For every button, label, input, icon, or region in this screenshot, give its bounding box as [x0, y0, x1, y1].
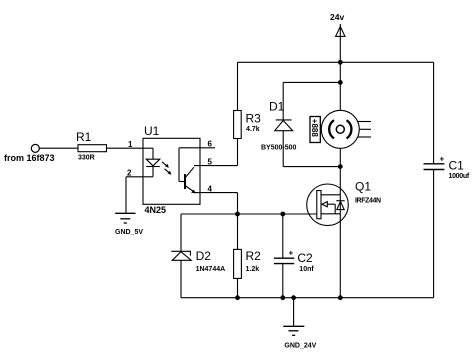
junction D1 rail: [338, 80, 343, 85]
diode D1: [261, 82, 297, 151]
junction bottom rail C2: [280, 295, 285, 300]
junction gate rail pin4: [235, 212, 240, 217]
resistor R3: [234, 111, 262, 139]
wire U1 pin 5 to R3 bottom: [194, 139, 238, 167]
wire R1 to U1 pin 1: [107, 140, 144, 149]
wire top rail to R3: [237, 62, 239, 110]
U1 LED: [143, 148, 160, 177]
U1 light arrows: [162, 162, 171, 175]
capacitor C1: [424, 62, 470, 297]
capacitor C2: [274, 214, 314, 298]
svg-text:1000uf: 1000uf: [449, 173, 470, 180]
svg-text:C1: C1: [449, 158, 465, 172]
wire motor to Q1 drain and source to bottom rail: [339, 148, 341, 297]
junction drain node: [338, 164, 343, 169]
svg-text:5: 5: [208, 157, 213, 166]
svg-text:4.7k: 4.7k: [246, 126, 260, 133]
wire U1 pin 2 to ground: [126, 169, 143, 214]
resistor R1: [76, 130, 107, 162]
junction bottom rail R2: [235, 295, 240, 300]
svg-text:+: +: [289, 249, 294, 258]
svg-text:6: 6: [208, 140, 213, 149]
svg-text:from 16f873: from 16f873: [4, 153, 55, 163]
U1 phototransistor: [179, 148, 196, 194]
svg-text:IRFZ44N: IRFZ44N: [355, 197, 381, 204]
wire gate rail: [181, 213, 317, 215]
svg-text:10nf: 10nf: [299, 266, 314, 273]
wire input to R1: [39, 147, 78, 149]
transistor Q1 mosfet: [307, 180, 381, 226]
svg-text:+: +: [440, 154, 445, 163]
svg-text:4: 4: [208, 184, 213, 193]
svg-text:330R: 330R: [78, 154, 95, 161]
ground GND_24V: [283, 298, 316, 350]
junction bottom rail ground: [291, 295, 296, 300]
svg-text:1.2k: 1.2k: [246, 266, 260, 273]
svg-text:Q1: Q1: [355, 180, 371, 194]
svg-text:1: 1: [128, 140, 133, 149]
junction bottom rail Q1 source: [338, 295, 343, 300]
svg-text:R3: R3: [246, 112, 262, 126]
wire D1 branch rail: [283, 81, 340, 83]
wire bottom rail: [181, 297, 434, 299]
svg-text:24v: 24v: [330, 12, 344, 22]
wire top 24v rail: [238, 61, 434, 63]
wire 24v rail to motor: [339, 62, 341, 110]
op-amp U1 optocoupler box: [143, 124, 200, 215]
resistor R2: [234, 214, 262, 298]
svg-text:BY500-500: BY500-500: [261, 145, 297, 152]
svg-text:+888: +888: [310, 119, 319, 138]
svg-text:R2: R2: [246, 249, 262, 263]
power 24v arrow: [330, 12, 345, 62]
input terminal from 16f873: [4, 144, 55, 163]
svg-text:C2: C2: [297, 251, 313, 265]
ground GND_5V: [115, 213, 143, 236]
svg-text:2: 2: [127, 169, 132, 178]
svg-text:4N25: 4N25: [145, 205, 167, 215]
motor M1: [310, 110, 371, 148]
U1 pin 6 stub: [179, 140, 215, 149]
zener diode D2: [171, 214, 225, 298]
junction top rail: [338, 60, 343, 65]
svg-text:D2: D2: [196, 249, 212, 263]
wire U1 pin 4 to gate rail: [195, 184, 238, 214]
svg-text:GND_5V: GND_5V: [115, 229, 143, 236]
junction gate rail C2: [280, 212, 285, 217]
wire D1 anode to drain node: [283, 131, 340, 167]
svg-text:GND_24V: GND_24V: [284, 342, 316, 349]
svg-text:R1: R1: [76, 130, 92, 144]
svg-text:D1: D1: [269, 100, 285, 114]
svg-text:U1: U1: [144, 124, 160, 138]
svg-text:1N4744A: 1N4744A: [196, 266, 226, 273]
